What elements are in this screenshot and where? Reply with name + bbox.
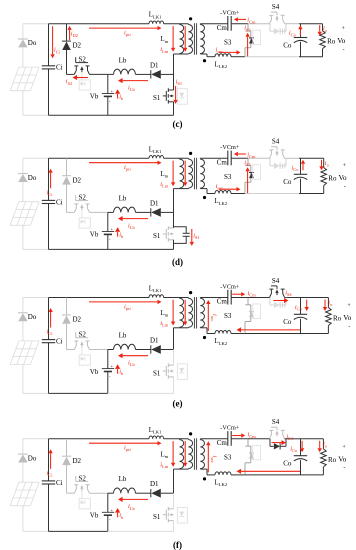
svg-text:(e): (e) xyxy=(173,399,183,409)
svg-text:io: io xyxy=(328,300,333,308)
svg-text:+: + xyxy=(111,364,114,369)
svg-text:+: + xyxy=(111,89,114,94)
svg-text:S3: S3 xyxy=(224,312,232,320)
svg-text:Vb: Vb xyxy=(90,512,99,520)
svg-text:iLb: iLb xyxy=(128,222,135,230)
svg-text:iD2: iD2 xyxy=(71,30,78,38)
svg-text:LLK1: LLK1 xyxy=(149,286,162,294)
svg-text:iLm: iLm xyxy=(160,46,168,54)
svg-text:S1: S1 xyxy=(153,369,161,377)
svg-text:Lm: Lm xyxy=(161,451,169,459)
svg-text:Ro: Ro xyxy=(328,456,337,464)
svg-text:Co: Co xyxy=(283,318,292,326)
svg-text:Ro: Ro xyxy=(328,175,337,183)
svg-text:S2: S2 xyxy=(79,331,87,339)
svg-text:-: - xyxy=(348,324,350,330)
svg-text:Co: Co xyxy=(283,178,292,186)
svg-text:iS4: iS4 xyxy=(286,433,293,441)
svg-text:-VCm+: -VCm+ xyxy=(220,10,239,17)
svg-text:LLK2: LLK2 xyxy=(215,480,228,488)
svg-text:Ci: Ci xyxy=(56,338,63,346)
svg-text:+: + xyxy=(343,163,347,169)
svg-text:Co: Co xyxy=(283,41,292,49)
svg-text:isec: isec xyxy=(210,455,218,463)
svg-text:Do: Do xyxy=(28,174,37,182)
svg-text:-: - xyxy=(343,465,345,471)
svg-text:-VCm+: -VCm+ xyxy=(220,144,239,151)
svg-text:iLm: iLm xyxy=(160,181,168,189)
svg-text:(d): (d) xyxy=(172,257,183,267)
svg-text:Lm: Lm xyxy=(161,310,169,318)
svg-text:-: - xyxy=(109,374,111,379)
svg-text:LLK1: LLK1 xyxy=(149,12,162,20)
svg-text:Cm: Cm xyxy=(217,159,228,167)
svg-text:iLm: iLm xyxy=(160,461,168,469)
svg-text:Lm: Lm xyxy=(161,171,169,179)
svg-text:iS4: iS4 xyxy=(285,290,292,298)
svg-text:iS1: iS1 xyxy=(193,232,199,240)
svg-text:D2: D2 xyxy=(73,42,82,50)
svg-text:iLb: iLb xyxy=(128,360,135,368)
svg-text:S3: S3 xyxy=(224,173,232,181)
svg-text:Do: Do xyxy=(28,454,37,462)
svg-text:S4: S4 xyxy=(272,138,280,146)
svg-text:(c): (c) xyxy=(173,119,183,129)
svg-text:Vo: Vo xyxy=(337,36,345,45)
svg-text:D2: D2 xyxy=(73,316,82,324)
svg-text:io: io xyxy=(323,25,328,33)
svg-text:isec: isec xyxy=(216,183,223,191)
svg-text:D1: D1 xyxy=(150,199,159,207)
svg-text:isec: isec xyxy=(210,314,218,322)
svg-text:S3: S3 xyxy=(224,454,232,462)
svg-text:isec: isec xyxy=(216,46,223,54)
svg-text:ipri: ipri xyxy=(124,30,131,38)
svg-text:+: + xyxy=(347,303,351,309)
svg-text:ib: ib xyxy=(119,93,124,101)
svg-text:ipri: ipri xyxy=(124,303,131,311)
svg-text:+: + xyxy=(342,444,346,450)
svg-text:Co: Co xyxy=(283,460,292,468)
svg-text:ipri: ipri xyxy=(124,164,131,172)
svg-text:iCm: iCm xyxy=(248,431,257,439)
svg-text:+: + xyxy=(111,227,114,232)
svg-text:LLK1: LLK1 xyxy=(149,146,162,154)
svg-text:Vo: Vo xyxy=(338,454,346,463)
svg-text:Ci: Ci xyxy=(56,64,63,72)
svg-text:LLK2: LLK2 xyxy=(215,338,228,346)
svg-text:iCm: iCm xyxy=(247,17,256,25)
svg-text:Do: Do xyxy=(28,39,37,47)
svg-text:S4: S4 xyxy=(272,418,280,426)
svg-text:-: - xyxy=(344,184,346,190)
svg-text:iCo: iCo xyxy=(290,445,298,453)
svg-text:io: io xyxy=(325,160,330,168)
svg-text:Vo: Vo xyxy=(343,313,351,322)
svg-text:-VCm+: -VCm+ xyxy=(220,425,239,432)
svg-text:iCo: iCo xyxy=(295,304,303,312)
svg-text:LLK2: LLK2 xyxy=(215,198,228,206)
svg-text:S1: S1 xyxy=(153,513,161,521)
svg-text:-VCm+: -VCm+ xyxy=(220,283,239,290)
svg-text:iLb: iLb xyxy=(128,503,135,511)
svg-text:Ro: Ro xyxy=(333,315,342,323)
svg-text:iCo: iCo xyxy=(289,30,297,38)
svg-text:Vb: Vb xyxy=(90,368,99,376)
svg-text:Ro: Ro xyxy=(327,38,336,46)
svg-text:Ci: Ci xyxy=(56,198,63,206)
svg-text:iCm: iCm xyxy=(248,290,257,298)
svg-text:S4: S4 xyxy=(272,3,280,11)
svg-text:D1: D1 xyxy=(150,337,159,345)
svg-text:Vb: Vb xyxy=(90,231,99,239)
svg-text:Do: Do xyxy=(28,313,37,321)
svg-text:LLK2: LLK2 xyxy=(215,61,228,69)
svg-text:S3: S3 xyxy=(224,38,232,46)
svg-text:Lb: Lb xyxy=(119,194,127,202)
svg-text:S2: S2 xyxy=(79,56,87,64)
svg-text:Ci: Ci xyxy=(56,479,63,487)
svg-text:Lb: Lb xyxy=(119,332,127,340)
svg-text:(f): (f) xyxy=(173,540,182,550)
svg-text:-: - xyxy=(109,98,111,103)
svg-text:iCi: iCi xyxy=(47,470,54,478)
svg-text:iS1: iS1 xyxy=(176,78,182,86)
svg-text:iS2: iS2 xyxy=(66,78,72,86)
svg-text:iCm: iCm xyxy=(247,151,256,159)
svg-text:iCi: iCi xyxy=(47,329,54,337)
svg-text:LLK1: LLK1 xyxy=(149,427,162,435)
svg-text:Lm: Lm xyxy=(161,36,169,44)
svg-text:iCi: iCi xyxy=(47,189,54,197)
svg-text:ib: ib xyxy=(119,231,124,239)
svg-text:+: + xyxy=(111,507,114,512)
svg-text:D2: D2 xyxy=(73,457,82,465)
svg-text:S4: S4 xyxy=(272,277,280,285)
svg-text:S1: S1 xyxy=(153,232,161,240)
svg-text:D1: D1 xyxy=(150,61,159,69)
svg-text:ib: ib xyxy=(119,369,124,377)
svg-text:D2: D2 xyxy=(73,176,82,184)
svg-text:-: - xyxy=(343,47,345,53)
svg-text:io: io xyxy=(323,441,328,449)
svg-text:Cm: Cm xyxy=(217,24,228,32)
svg-text:Lb: Lb xyxy=(119,475,127,483)
svg-text:D1: D1 xyxy=(150,480,159,488)
svg-text:Vo: Vo xyxy=(339,173,347,182)
svg-text:S2: S2 xyxy=(79,194,87,202)
svg-text:iLm: iLm xyxy=(160,320,168,328)
svg-text:-: - xyxy=(109,517,111,522)
svg-text:iCi: iCi xyxy=(54,47,61,55)
svg-text:ipri: ipri xyxy=(124,445,131,453)
svg-text:Lb: Lb xyxy=(119,56,127,64)
svg-text:Cm: Cm xyxy=(217,298,228,306)
svg-text:ib: ib xyxy=(119,512,124,520)
svg-text:-: - xyxy=(109,236,111,241)
svg-text:+: + xyxy=(342,26,346,32)
svg-text:iCo: iCo xyxy=(292,164,300,172)
svg-text:S2: S2 xyxy=(79,474,87,482)
svg-text:Cm: Cm xyxy=(217,439,228,447)
svg-text:Vb: Vb xyxy=(90,93,99,101)
svg-text:S1: S1 xyxy=(153,94,161,102)
svg-text:iLb: iLb xyxy=(128,84,135,92)
